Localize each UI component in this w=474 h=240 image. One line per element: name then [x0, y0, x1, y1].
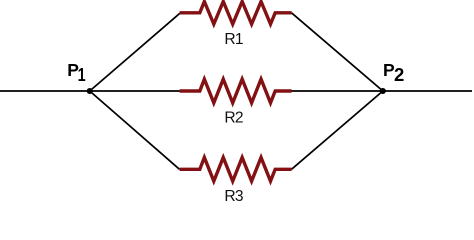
svg-text:R3: R3 — [224, 188, 242, 205]
wire: R1 right to P2 — [292, 13, 383, 91]
node P1 — [87, 88, 93, 94]
svg-text:1: 1 — [78, 64, 86, 85]
svg-text:2: 2 — [394, 64, 404, 85]
wire: R2 right to P2 — [291, 90, 383, 92]
wire: P1 to R2 left — [90, 90, 181, 92]
label R1 — [224, 31, 242, 48]
node P2 — [380, 88, 386, 94]
label R3 — [224, 188, 242, 205]
resistor R3 — [180, 157, 292, 181]
svg-text:R1: R1 — [224, 31, 242, 48]
wire: left lead into node P1 — [0, 90, 90, 92]
wire: P2 to right edge — [383, 90, 472, 92]
wire: P1 down to R3 left — [90, 91, 180, 169]
wire: R3 right to P2 — [292, 91, 383, 169]
resistor R1 — [180, 2, 292, 25]
label P1 — [67, 60, 85, 85]
label R2 — [224, 110, 242, 127]
resistor R2 — [180, 79, 292, 103]
svg-text:R2: R2 — [224, 110, 242, 127]
label P2 — [383, 60, 404, 85]
wire: P1 up to R1 left — [90, 13, 181, 91]
